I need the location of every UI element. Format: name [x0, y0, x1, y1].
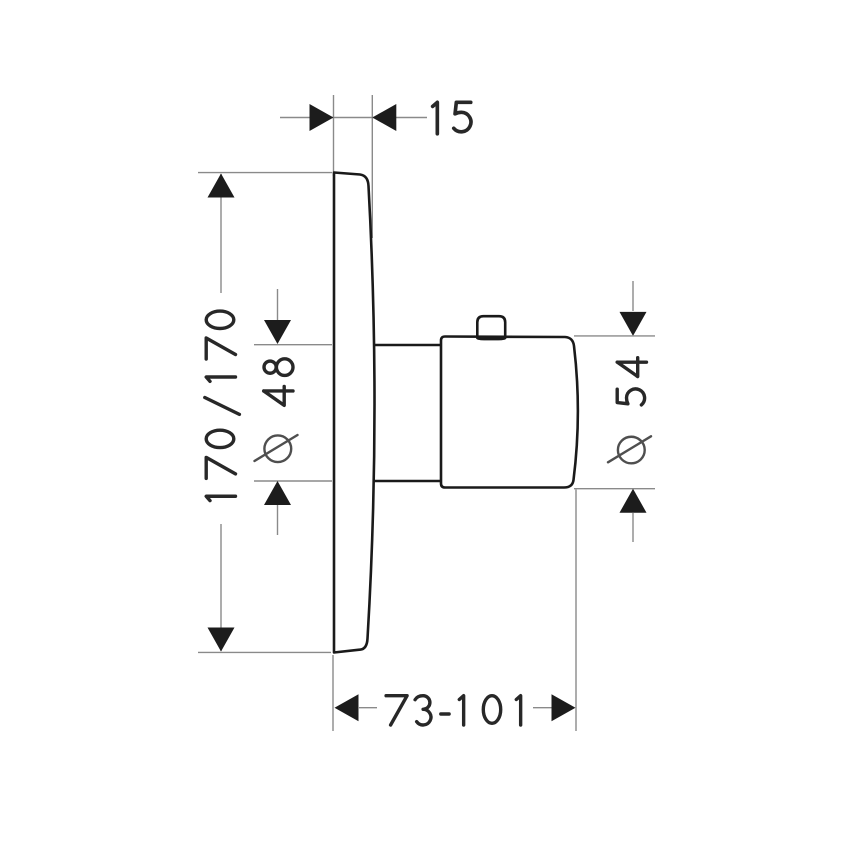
dimension 73-101: right extension line	[575, 490, 577, 732]
dimension Ø48: upper stem	[277, 289, 279, 320]
dimension 15: left extension line	[333, 95, 335, 176]
dimension Ø54: bottom reference line	[574, 488, 655, 490]
dimension 73-101: left extension line	[332, 655, 334, 731]
dimension 170/170: dimension line upper segment	[220, 174, 222, 293]
dimension Ø54: top reference line	[574, 335, 655, 337]
dimension 15: value label "15"	[433, 102, 471, 133]
dimension Ø48: upper arrowhead (points down)	[264, 320, 291, 344]
dimension 15: right arrowhead (points left)	[372, 104, 396, 131]
dimension Ø54: lower arrowhead (points up)	[620, 489, 647, 513]
dimension Ø48: value label "Ø 48" (rotated)	[255, 359, 298, 462]
dimension Ø54: upper arrowhead (points down)	[620, 312, 647, 336]
dimension 170/170: top arrowhead (points up)	[208, 174, 235, 198]
dimension Ø48: top reference line	[254, 344, 332, 346]
valve sleeve/neck: bottom edge	[368, 480, 445, 483]
dimension Ø54: value label "Ø 54" (rotated)	[608, 358, 651, 464]
dimension 73-101: left arrowhead (points left)	[335, 694, 359, 721]
thermostat handle (knob, side profile)	[441, 337, 578, 488]
dimension 170/170: top reference line	[198, 172, 332, 174]
dimension 15: right extension line	[371, 95, 373, 238]
dimension Ø54: lower stem	[632, 513, 634, 542]
dimension 73-101: left tail line	[358, 707, 377, 709]
dimension 73-101: right tail line	[533, 707, 552, 709]
dimension Ø48: lower arrowhead (points up)	[264, 481, 291, 505]
dimension Ø48: lower stem	[277, 505, 279, 535]
dimension 73-101: value label "73-101"	[386, 696, 521, 725]
dimension 170/170: dimension line lower segment	[220, 524, 222, 651]
escutcheon wall plate (side profile)	[334, 173, 375, 653]
dimension 170/170: value label "170 / 170" (rotated)	[205, 311, 240, 500]
dimension 73-101: right arrowhead (points right)	[552, 694, 576, 721]
valve sleeve/neck: top edge	[368, 344, 445, 347]
dimension Ø54: upper stem	[632, 281, 634, 311]
dimension 170/170: bottom reference line	[198, 651, 331, 653]
dimension 170/170: bottom arrowhead (points down)	[208, 628, 235, 652]
dimension 15: dimension line	[280, 117, 427, 119]
dimension Ø48: bottom reference line	[254, 480, 332, 482]
dimension 15: left arrowhead (points right)	[310, 104, 334, 131]
handle button (top knob detail)	[477, 316, 505, 339]
